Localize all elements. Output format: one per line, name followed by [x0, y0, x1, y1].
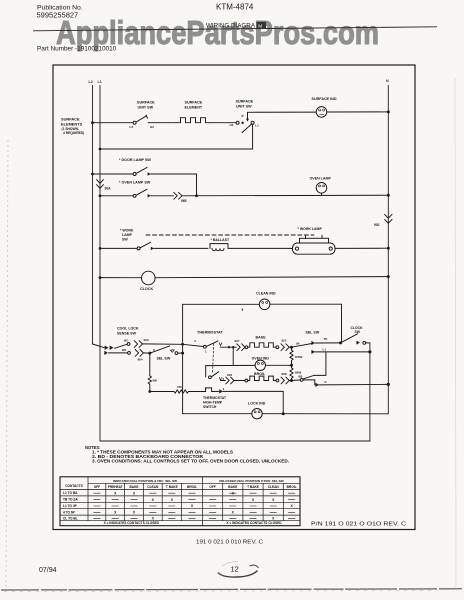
- svg-text:5995255827: 5995255827: [37, 10, 79, 19]
- svg-text:X: X: [114, 511, 117, 515]
- svg-text:P: P: [242, 114, 244, 118]
- svg-text:X: X: [133, 491, 136, 495]
- right page edge artifact: [455, 78, 456, 590]
- node clock/N junction: [387, 275, 390, 278]
- 5W resistor drop: [148, 353, 151, 391]
- work lamp fluorescent tube: [293, 243, 336, 254]
- svg-text:BROIL: BROIL: [254, 372, 266, 376]
- svg-text:K: K: [325, 380, 328, 384]
- power line L1: [99, 86, 101, 442]
- svg-text:CLOCK: CLOCK: [140, 287, 153, 291]
- svg-text:X: X: [252, 498, 255, 502]
- svg-text:ELEMENT: ELEMENT: [185, 106, 203, 110]
- svg-text:X: X: [133, 511, 136, 515]
- wire clock to N: [155, 277, 388, 278]
- svg-text:SEL SW: SEL SW: [157, 357, 171, 361]
- node L1 oven lamp: [99, 194, 102, 197]
- svg-text:965: 965: [181, 199, 187, 203]
- node L2 door lamp: [91, 173, 94, 176]
- svg-text:THERMOSTAT: THERMOSTAT: [203, 396, 227, 400]
- svg-text:T BAKE: T BAKE: [166, 485, 178, 489]
- door lamp sw: [133, 173, 136, 176]
- svg-text:TB TO SA: TB TO SA: [63, 498, 79, 502]
- svg-text:X = INDICATES CONTACTS CLOSE: X = INDICATES CONTACTS CLOSED: [226, 521, 282, 525]
- svg-text:908: 908: [282, 372, 287, 376]
- oven lamp bulb: [316, 183, 327, 194]
- row lines: [60, 495, 300, 497]
- svg-text:KTM-4874: KTM-4874: [216, 3, 254, 12]
- svg-text:UNIT SW: UNIT SW: [138, 106, 154, 110]
- svg-text:ELEMENTS: ELEMENTS: [61, 122, 83, 127]
- svg-text:UNLOCKED DIAL POSITION 8: UNLOCKED DIAL POSITION 8 POS. SEL SW: [219, 479, 284, 483]
- svg-text:X: X: [171, 498, 174, 502]
- surface ind wire: [248, 111, 317, 113]
- svg-text:105W: 105W: [295, 355, 303, 359]
- surface return wire: [99, 148, 102, 151]
- bottom scan speckle line: [1, 589, 462, 590]
- svg-text:CL TO BL: CL TO BL: [63, 516, 78, 520]
- svg-text:9A: 9A: [296, 342, 301, 346]
- svg-text:4 REQUIRED): 4 REQUIRED): [63, 131, 84, 135]
- oven ind loop: [232, 347, 234, 365]
- svg-text:T BAKE: T BAKE: [247, 485, 259, 489]
- svg-text:X = INDICATES CONTACTS CLOSE: X = INDICATES CONTACTS CLOSED: [104, 521, 160, 525]
- svg-text:BAKE: BAKE: [228, 485, 237, 489]
- resistor chain 105W / 65W: [290, 347, 293, 365]
- svg-text:BC: BC: [124, 339, 129, 343]
- svg-text:N: N: [386, 79, 389, 83]
- svg-text:HIGH-TEMP: HIGH-TEMP: [203, 400, 223, 404]
- node work-lamp/N junction: [387, 247, 390, 250]
- svg-text:P/N 191 O 021 O O1O REV. C: P/N 191 O 021 O O1O REV. C: [311, 521, 407, 527]
- ballast: [210, 244, 228, 249]
- clean ind lamp: [259, 299, 270, 310]
- svg-text:* DOOR LAMP SW: * DOOR LAMP SW: [119, 158, 151, 162]
- svg-text:L1: L1: [323, 347, 327, 351]
- svg-text:H1: H1: [230, 123, 234, 127]
- svg-text:SEL SW: SEL SW: [306, 331, 320, 335]
- svg-text:6B: 6B: [299, 374, 304, 378]
- clock motor: [142, 271, 156, 285]
- svg-text:4: 4: [194, 339, 196, 343]
- svg-text:BAKE: BAKE: [256, 336, 267, 340]
- svg-text:CONTACTS: CONTACTS: [65, 484, 82, 488]
- header split line: [88, 482, 300, 484]
- svg-text:COOL LOCK: COOL LOCK: [117, 326, 139, 330]
- surface unit sw (right): [236, 121, 239, 124]
- svg-text:12: 12: [231, 565, 239, 574]
- svg-text:918: 918: [227, 373, 232, 377]
- black box after WIRING DIAGRAM: [257, 22, 267, 29]
- node L1 work lamp: [99, 247, 102, 250]
- cool lock sense sw: [115, 344, 127, 348]
- svg-text:PREHEAT: PREHEAT: [108, 485, 123, 489]
- svg-text:963: 963: [144, 338, 149, 342]
- dashed option line: [146, 234, 314, 236]
- svg-text:OFF: OFF: [94, 485, 100, 489]
- svg-text:* OVEN LAMP SW: * OVEN LAMP SW: [119, 180, 151, 184]
- wire: [148, 122, 176, 124]
- svg-text:CLEAN: CLEAN: [268, 485, 280, 489]
- svg-text:OVEN LAMP: OVEN LAMP: [310, 176, 332, 180]
- svg-text:BROIL: BROIL: [287, 485, 297, 489]
- row 1: [311, 341, 315, 345]
- svg-text:SW: SW: [122, 237, 128, 241]
- right control vertical: [369, 343, 371, 441]
- svg-text:L1: L1: [98, 80, 102, 84]
- schematic main group: [53, 65, 415, 530]
- svg-text:OVEN IND: OVEN IND: [252, 356, 270, 360]
- surface ind lamp: [316, 107, 327, 118]
- row 3: [303, 380, 315, 385]
- oven lamp sw: [133, 194, 136, 197]
- node on L2: [91, 121, 94, 124]
- jog down: [314, 352, 326, 376]
- svg-text:CLEAN: CLEAN: [147, 485, 159, 489]
- column lines: [87, 477, 89, 521]
- lock ind row: [183, 413, 252, 415]
- svg-text:LAMP: LAMP: [122, 233, 133, 237]
- svg-text:X: X: [152, 517, 155, 521]
- svg-text:CLEAN IND: CLEAN IND: [256, 292, 276, 296]
- header texts: [37, 3, 256, 30]
- wire: [210, 122, 236, 124]
- svg-text:30A: 30A: [105, 186, 112, 190]
- svg-text:X: X: [272, 498, 275, 502]
- 965 connector: [174, 192, 182, 199]
- svg-text:X: X: [272, 517, 275, 521]
- svg-text:X: X: [191, 504, 194, 508]
- wire to return: [252, 124, 254, 149]
- svg-text:SURFACE: SURFACE: [137, 101, 155, 105]
- lower backboard row: [104, 351, 108, 355]
- svg-text:5: 5: [242, 308, 244, 312]
- svg-text:191 0 021 0 010 REV. C: 191 0 021 0 010 REV. C: [196, 539, 263, 545]
- 902 connector on N: [385, 214, 392, 223]
- broil element: [245, 379, 248, 382]
- table dashes and X marks: [93, 493, 295, 518]
- svg-text:* WORK: * WORK: [120, 228, 134, 232]
- svg-text:4 TO 6P: 4 TO 6P: [63, 510, 76, 514]
- svg-text:H2: H2: [150, 125, 154, 129]
- svg-text:LOCK IND: LOCK IND: [248, 402, 266, 406]
- svg-text:1: 1: [205, 350, 207, 354]
- 15F row: [150, 391, 174, 393]
- svg-text:OFF: OFF: [209, 485, 215, 489]
- left page edge artifact: [6, 140, 8, 595]
- svg-text:Part Number -19100210010: Part Number -19100210010: [37, 46, 117, 53]
- svg-text:SWITCH: SWITCH: [203, 405, 217, 409]
- power line N: [387, 86, 389, 414]
- svg-text:UNIT SW: UNIT SW: [236, 105, 252, 109]
- outer diagram box: [53, 65, 415, 530]
- svg-text:INDICATED DIAL POSITION &: INDICATED DIAL POSITION & FBC. SEL SW: [113, 479, 177, 483]
- svg-text:SENSE SW: SENSE SW: [117, 331, 137, 335]
- svg-text:X: X: [232, 511, 235, 515]
- svg-text:964: 964: [138, 357, 143, 361]
- svg-text:1: 1: [205, 386, 207, 390]
- clean box right vertical: [341, 304, 343, 343]
- surface element heating coil: [176, 118, 210, 123]
- 30A breaker on L1: [97, 180, 104, 189]
- thermostat contact 1: [203, 345, 206, 348]
- svg-text:SURFACE IND: SURFACE IND: [312, 97, 337, 101]
- svg-text:X: X: [114, 491, 117, 495]
- sel sw blade: [151, 346, 170, 353]
- svg-text:SURFACE: SURFACE: [236, 100, 254, 104]
- page number ellipse swoosh: [218, 562, 259, 578]
- svg-text:* WORK LAMP: * WORK LAMP: [298, 227, 323, 231]
- svg-text:907: 907: [235, 339, 240, 343]
- clock sw blade: [342, 334, 358, 343]
- svg-text:X: X: [152, 498, 155, 502]
- svg-text:L2: L2: [130, 125, 134, 129]
- node oven-lamp/N junction: [387, 194, 390, 197]
- svg-text:L1 TO 4P: L1 TO 4P: [63, 504, 78, 508]
- svg-text:4: 4: [223, 387, 225, 391]
- svg-text:3. OVEN CONDITIONS: ALL: 3. OVEN CONDITIONS: ALL CONTROLS SET TO …: [92, 459, 289, 464]
- svg-text:* BALLAST: * BALLAST: [211, 238, 231, 242]
- clean box top wire: [183, 303, 342, 305]
- svg-text:5W: 5W: [153, 378, 158, 382]
- surface unit sw (left): [133, 121, 136, 124]
- wire work-lamp to N: [335, 247, 388, 249]
- node surface-ind/N junction: [387, 110, 390, 113]
- svg-text:SURFACE: SURFACE: [185, 101, 203, 105]
- L2 bend to cool lock row: [93, 344, 105, 348]
- svg-text:L1 TO BA: L1 TO BA: [63, 491, 78, 495]
- svg-text:M: M: [258, 23, 262, 28]
- svg-text:BAKE: BAKE: [129, 485, 138, 489]
- work lamp sw: [137, 247, 140, 250]
- svg-text:15F: 15F: [177, 385, 182, 389]
- svg-text:15: 15: [171, 348, 175, 352]
- svg-text:X: X: [290, 504, 293, 508]
- svg-text:902: 902: [374, 223, 380, 227]
- svg-text:L1: L1: [255, 124, 259, 128]
- bake element: [245, 346, 248, 349]
- svg-text:BD: BD: [122, 348, 127, 352]
- inner bottom return wire: [100, 440, 370, 442]
- svg-text:07/94: 07/94: [39, 567, 57, 574]
- row 2: [311, 350, 315, 354]
- power line L2: [92, 86, 94, 345]
- svg-text:BROIL: BROIL: [187, 485, 197, 489]
- svg-text:TK: TK: [324, 337, 329, 341]
- header rule line: [33, 27, 437, 31]
- thermostat contact 2 (broil): [209, 376, 212, 379]
- clean box left bus: [182, 304, 184, 413]
- wire: [93, 122, 134, 124]
- svg-text:L2: L2: [89, 80, 93, 84]
- svg-text:THERMOSTAT: THERMOSTAT: [197, 331, 223, 335]
- svg-text:921: 921: [282, 339, 287, 343]
- 907 connector: [237, 344, 245, 351]
- svg-text:SW: SW: [355, 330, 361, 334]
